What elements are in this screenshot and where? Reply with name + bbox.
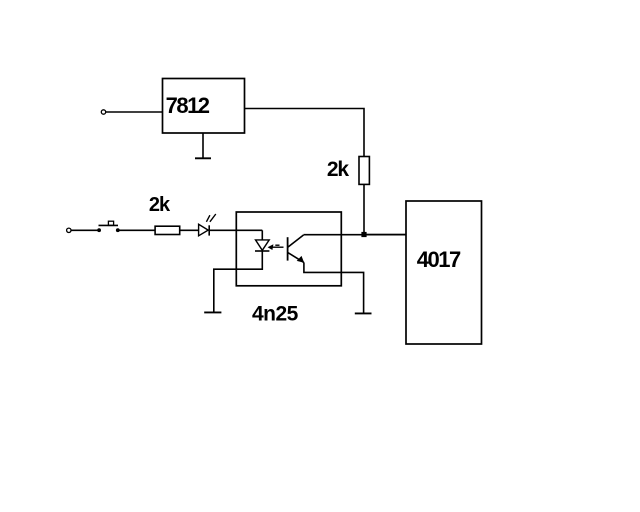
svg-text:4017: 4017 (417, 247, 461, 272)
svg-text:2k: 2k (327, 158, 349, 181)
svg-text:2k: 2k (149, 194, 171, 216)
svg-text:4n25: 4n25 (252, 303, 299, 326)
svg-text:7812: 7812 (166, 93, 210, 118)
